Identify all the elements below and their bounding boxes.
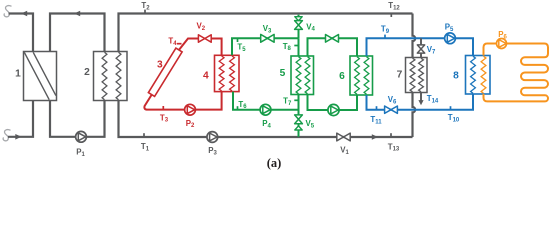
heat exchanger 7 (storage/aux HX, gray): [397, 58, 427, 93]
wire: box1 outlet stub to source, with left flow arrow: [9, 14, 34, 52]
node T4 (tick + label): [168, 37, 181, 47]
valve V2: [196, 22, 211, 43]
heat exchanger 4 (solar loop HX): [203, 55, 239, 91]
external source squiggle (top-left): [4, 6, 11, 17]
valve between boxes 5 and 6: [326, 35, 333, 43]
wire: main source loop right vertical (with crossing hops over blue lines): [413, 14, 416, 58]
node T3 (tick + label): [160, 106, 169, 124]
pump P6: [497, 30, 508, 48]
external source squiggle (bottom-left): [3, 130, 10, 141]
flow arrow from gray top line down into V4 (outlined): [295, 17, 302, 21]
wire: box1/box2 intermediate loop, bottom segment through pump P1: [50, 101, 105, 137]
valve V1: [337, 133, 350, 156]
svg-text:7: 7: [397, 70, 403, 81]
flow arrow from gray bottom line up into V5 (outlined): [295, 126, 302, 130]
wire: main source loop top line T2..T12: [119, 14, 413, 52]
node T8 (tick + label): [283, 42, 299, 52]
wire: V4 riser to gray top line: [298, 15, 300, 39]
wire: green loop bottom through P4 back to box4: [233, 92, 299, 110]
node T6 (tick + label): [238, 100, 248, 110]
svg-text:4: 4: [203, 71, 209, 82]
valve V6: [385, 95, 398, 113]
valve V3: [261, 24, 274, 42]
node T2 (sensor tick + label): [141, 1, 150, 13]
heat exchanger 6: [339, 56, 372, 95]
wire: green loop box4-right to box5-left (top, through V3): [232, 15, 357, 137]
wire: blue loop top line T9..P5 to box8: [367, 38, 474, 109]
wire: box1/box2 intermediate loop, top segment with left flow arrow: [50, 14, 105, 52]
pump P2: [185, 104, 196, 129]
svg-text:(a): (a): [267, 156, 282, 170]
svg-text:3: 3: [157, 60, 163, 71]
pump P4: [260, 104, 271, 129]
pump P5: [445, 23, 456, 44]
wire: source inlet stub to box1, with right flow arrow: [8, 101, 33, 137]
wire: green 5-6 loop bottom connector: [308, 95, 358, 111]
heat exchanger 1 (source heat exchanger, diagonal band): [15, 52, 56, 101]
svg-text:6: 6: [339, 71, 345, 82]
wire: V7 branch from blue top line into box7 right coil: [420, 38, 422, 57]
wire: green 5-6 loop top connector: [308, 38, 358, 56]
valve V5 (vertical): [295, 115, 315, 129]
node T7 (tick + label): [283, 97, 298, 107]
node T1 (sensor tick + label): [141, 133, 150, 152]
svg-text:1: 1: [15, 69, 21, 80]
wire: main source loop bottom line T13..T1 with right flow arrow: [119, 101, 413, 138]
valve V4 (vertical): [295, 21, 316, 33]
node T5 (tick + label): [237, 38, 246, 53]
node T11 (tick + label): [370, 106, 382, 125]
node T9 (tick + label): [381, 25, 390, 39]
node T12 (sensor tick + label): [388, 1, 400, 17]
heat exchanger 5: [280, 56, 314, 95]
solar collector 3 (slanted panel): [148, 48, 182, 96]
svg-text:8: 8: [453, 71, 459, 82]
wire: blue loop bottom line T10..T11: [367, 94, 474, 110]
pump between boxes 5 and 6: [328, 104, 339, 115]
wire: T14 branch from box7 right coil down to blue bottom line, down arrow: [420, 93, 422, 102]
pump P3: [207, 132, 218, 157]
node T10 (tick + label): [448, 106, 460, 123]
pump P1: [76, 131, 87, 157]
svg-text:2: 2: [84, 67, 90, 78]
valve V7 (vertical, gray body): [417, 45, 436, 55]
wire: orange heating loop with serpentine radiator coil: [484, 44, 549, 102]
node T13 (sensor tick + label): [388, 133, 400, 152]
heat exchanger 2 (brine/system heat exchanger with coils): [84, 52, 127, 101]
wire: red solar loop: [144, 39, 221, 110]
svg-text:5: 5: [280, 68, 286, 79]
wire: green loop box5-left-bottom down to gray line through V5: [298, 95, 300, 137]
heat exchanger 8 (blue/orange HX): [453, 56, 490, 95]
